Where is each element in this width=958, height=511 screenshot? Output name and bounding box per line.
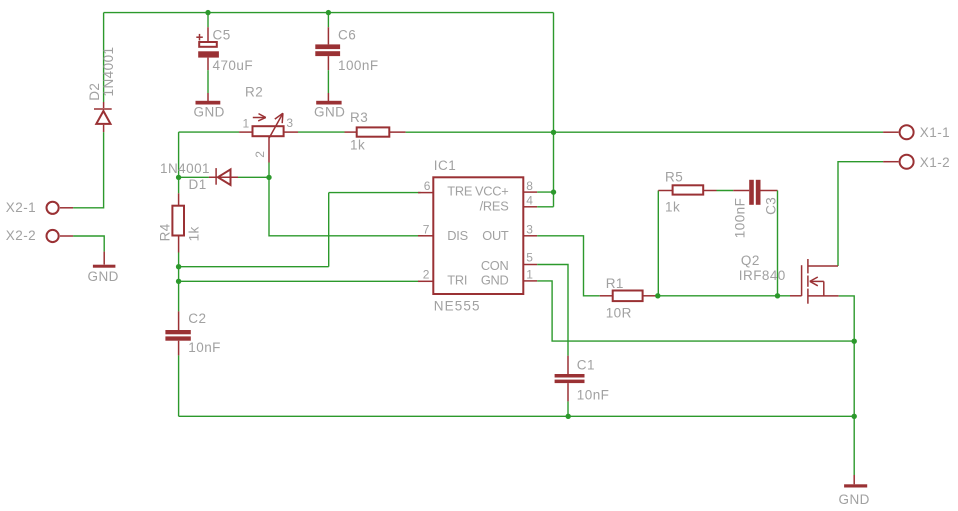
svg-text:D2: D2 <box>87 83 102 101</box>
wire top rail <box>104 12 554 14</box>
svg-text:X1-1: X1-1 <box>920 125 950 140</box>
svg-text:C1: C1 <box>577 358 595 373</box>
svg-text:R4: R4 <box>158 223 173 241</box>
ground under C5 <box>196 93 221 105</box>
svg-text:C5: C5 <box>213 28 231 43</box>
svg-text:D1: D1 <box>189 177 207 192</box>
resistor R1 <box>600 291 658 302</box>
svg-text:GND: GND <box>314 105 345 120</box>
svg-text:OUT: OUT <box>482 228 509 243</box>
diode D2 <box>94 102 112 132</box>
wire CON net <box>537 265 568 356</box>
svg-text:8: 8 <box>526 179 533 193</box>
wire main mid rail left segment <box>179 131 240 133</box>
resistor R3 <box>345 127 406 136</box>
svg-text:DIS: DIS <box>447 228 468 243</box>
capacitor C1 <box>555 356 585 402</box>
wire corner drop to D1 node <box>178 132 180 193</box>
wire VCC vertical <box>553 13 555 207</box>
node junction top C6 <box>326 10 331 15</box>
svg-text:R3: R3 <box>350 110 368 125</box>
svg-text:Q2: Q2 <box>741 253 760 268</box>
svg-text:X2-2: X2-2 <box>6 228 36 243</box>
node junction R4 TRE <box>176 264 181 269</box>
svg-text:IRF840: IRF840 <box>739 268 786 283</box>
wire Q2 source to right rail <box>839 296 855 475</box>
svg-text:IC1: IC1 <box>434 158 456 173</box>
node junction X1 wire x vertical <box>551 130 556 135</box>
pin 3 stub <box>523 235 537 237</box>
ground under C6 <box>316 93 341 105</box>
wire left drop to D2 <box>103 13 105 102</box>
svg-text:R1: R1 <box>606 276 624 291</box>
svg-text:10nF: 10nF <box>188 340 221 355</box>
svg-text:GND: GND <box>194 105 225 120</box>
node junction D1 anode <box>266 175 271 180</box>
resistor R5 <box>658 185 716 194</box>
svg-text:1k: 1k <box>187 226 202 241</box>
svg-text:R2: R2 <box>245 85 263 100</box>
svg-text:1: 1 <box>526 268 533 282</box>
svg-text:TRE: TRE <box>447 184 472 199</box>
svg-text:CON: CON <box>481 258 509 273</box>
wire gate net <box>658 295 790 297</box>
svg-text:3: 3 <box>526 222 533 236</box>
svg-text:5: 5 <box>526 251 533 265</box>
wire C1 bottom to ground rail <box>567 401 569 416</box>
wire C6 to ground <box>327 70 329 93</box>
node junction C1 ground <box>566 414 571 419</box>
diode D1 <box>209 168 238 185</box>
svg-text:2: 2 <box>423 268 430 282</box>
wire C3 right riser <box>777 191 779 296</box>
pin 5 stub <box>523 264 537 266</box>
node junction R1 R5 gate <box>655 293 660 298</box>
wire R3 to X1-1 <box>406 131 883 133</box>
wire TRE net vertical <box>328 193 330 267</box>
svg-text:GND: GND <box>481 272 509 287</box>
wire pin 8 to vertical <box>537 191 553 193</box>
capacitor C2 <box>165 311 190 355</box>
node junction R4 TRI <box>176 279 181 284</box>
svg-text:TRI: TRI <box>447 272 467 287</box>
svg-text:470uF: 470uF <box>213 58 254 73</box>
svg-text:4: 4 <box>526 194 533 208</box>
svg-text:3: 3 <box>286 116 293 130</box>
svg-text:6: 6 <box>424 179 431 193</box>
op-amp box IC1 NE555 <box>433 177 523 294</box>
wire R4 bottom to junctions <box>178 253 180 312</box>
svg-text:/RES: /RES <box>480 199 509 214</box>
svg-text:X1-2: X1-2 <box>920 155 950 170</box>
wire D2 anode to X2-1 <box>73 132 104 208</box>
node junction mid rail right <box>852 339 857 344</box>
wire pin 4 to vertical <box>537 206 553 208</box>
pin 4 stub <box>523 206 537 208</box>
wire TRE net horizontal <box>179 266 329 268</box>
svg-text:X2-1: X2-1 <box>6 200 36 215</box>
wire TRI net to pin 2 <box>179 280 419 282</box>
wire D1 row left <box>179 176 209 178</box>
node junction right rail bottom <box>852 414 857 419</box>
potentiometer R2 <box>239 113 298 162</box>
svg-text:1: 1 <box>243 117 250 131</box>
pin 7 stub <box>418 235 433 237</box>
wire X1-2 to Q2 drain <box>838 162 883 266</box>
capacitor C3 <box>733 180 777 205</box>
node junction D1 cathode <box>176 175 181 180</box>
ground under X2-2 <box>93 252 116 268</box>
ground bottom right <box>844 475 867 488</box>
transistor Q2 IRF840 <box>790 259 839 304</box>
resistor R4 <box>172 193 184 252</box>
svg-text:NE555: NE555 <box>434 299 481 314</box>
wire R5 left riser <box>657 191 659 296</box>
svg-text:100nF: 100nF <box>733 198 748 239</box>
terminal X2-1 <box>47 202 74 214</box>
terminal X1-1 <box>883 125 914 139</box>
capacitor C5 <box>196 13 219 71</box>
svg-text:2: 2 <box>253 151 267 158</box>
svg-text:R5: R5 <box>665 170 683 185</box>
wire R2 pin2 down to D1 node <box>268 163 270 178</box>
wire OUT net <box>537 236 600 296</box>
svg-text:C6: C6 <box>338 28 356 43</box>
svg-text:100nF: 100nF <box>338 58 379 73</box>
svg-text:1k: 1k <box>350 138 365 153</box>
svg-text:1N4001: 1N4001 <box>160 161 210 176</box>
pin 6 stub <box>418 192 433 194</box>
capacitor C6 <box>315 13 340 71</box>
wire R2 to R3 <box>298 131 345 133</box>
svg-text:10R: 10R <box>606 306 632 321</box>
svg-text:1N4001: 1N4001 <box>101 47 116 97</box>
wire C2 bottom to ground rail <box>178 355 180 416</box>
node junction C3 gate <box>775 293 780 298</box>
pin 2 stub <box>418 280 433 282</box>
wire bottom ground rail <box>179 415 855 417</box>
terminal X2-2 <box>47 230 74 242</box>
svg-text:GND: GND <box>839 492 870 507</box>
svg-text:10nF: 10nF <box>577 388 610 403</box>
wire D1 to R2 wiper node <box>238 176 269 178</box>
pin 1 stub <box>523 280 537 282</box>
wire R5 to C3 <box>717 190 734 192</box>
wire C5 to ground <box>207 70 209 93</box>
pin 8 stub <box>523 191 537 193</box>
node junction pin 8 <box>551 189 556 194</box>
svg-text:1k: 1k <box>665 200 680 215</box>
wire DIS net <box>269 177 423 235</box>
svg-text:C3: C3 <box>764 197 779 215</box>
svg-text:7: 7 <box>423 222 430 236</box>
wire TRE net to pin 6 <box>329 192 421 194</box>
svg-text:VCC+: VCC+ <box>475 184 509 199</box>
svg-text:C2: C2 <box>188 311 206 326</box>
svg-text:GND: GND <box>88 269 119 284</box>
terminal X1-2 <box>883 155 914 169</box>
node junction top C5 <box>205 10 210 15</box>
wire GND pin net <box>537 281 854 341</box>
wire X2-2 to ground <box>73 236 104 252</box>
